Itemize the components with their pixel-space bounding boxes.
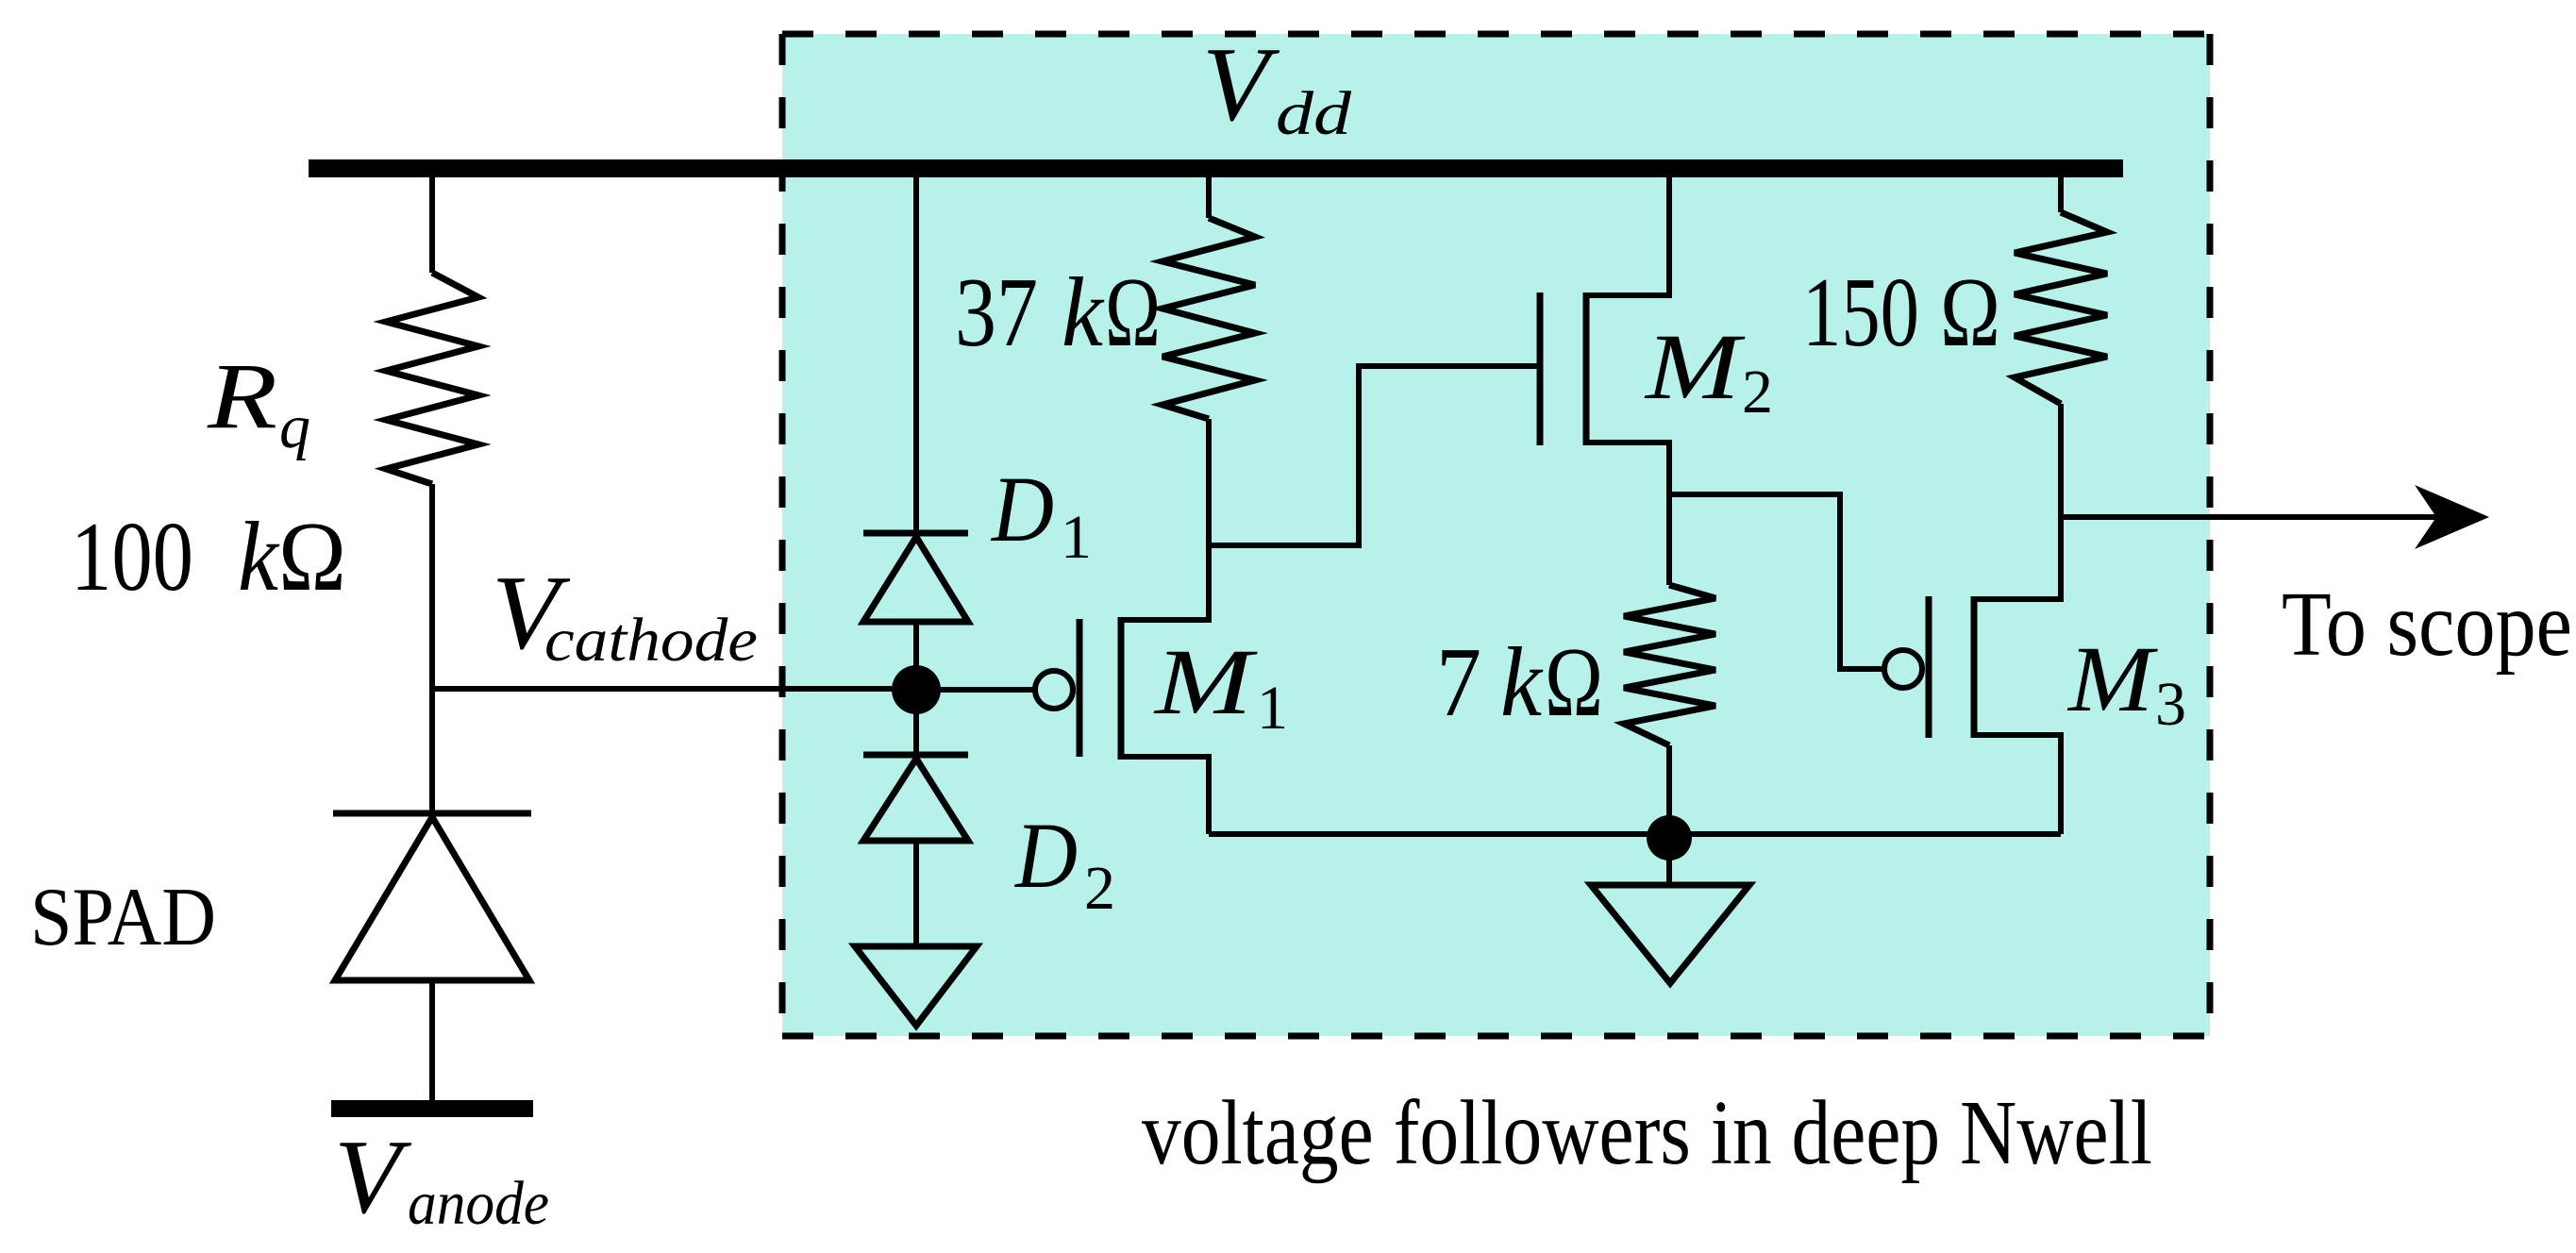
svg-text:To scope: To scope — [2282, 574, 2572, 675]
svg-text:Ω: Ω — [1940, 257, 2000, 367]
svg-text:q: q — [279, 393, 310, 461]
svg-text:dd: dd — [1276, 79, 1352, 148]
svg-text:M: M — [1153, 629, 1258, 734]
svg-text:k: k — [1500, 626, 1544, 737]
svg-text:SPAD: SPAD — [30, 872, 216, 963]
svg-text:D: D — [1013, 803, 1078, 908]
svg-text:150: 150 — [1802, 257, 1919, 367]
svg-text:100: 100 — [71, 501, 193, 611]
svg-text:1: 1 — [1061, 503, 1092, 572]
svg-text:2: 2 — [1084, 854, 1115, 923]
svg-text:cathode: cathode — [544, 606, 758, 675]
svg-text:M: M — [2066, 626, 2158, 731]
svg-text:3: 3 — [2155, 670, 2186, 739]
svg-text:D: D — [990, 457, 1054, 561]
svg-text:2: 2 — [1742, 358, 1773, 426]
svg-text:V: V — [334, 1119, 412, 1236]
svg-text:R: R — [207, 343, 277, 448]
svg-text:7: 7 — [1436, 626, 1481, 737]
svg-text:V: V — [1202, 26, 1280, 143]
svg-text:k: k — [1062, 257, 1105, 367]
svg-text:Ω: Ω — [278, 501, 346, 611]
svg-text:Ω: Ω — [1105, 257, 1161, 367]
svg-text:Ω: Ω — [1545, 626, 1603, 737]
svg-text:voltage followers in deep Nwel: voltage followers in deep Nwell — [1142, 1082, 2152, 1183]
svg-text:k: k — [238, 501, 280, 611]
svg-text:anode: anode — [408, 1169, 549, 1238]
svg-text:37: 37 — [955, 257, 1038, 367]
svg-text:1: 1 — [1257, 674, 1288, 743]
svg-text:M: M — [1644, 314, 1746, 419]
